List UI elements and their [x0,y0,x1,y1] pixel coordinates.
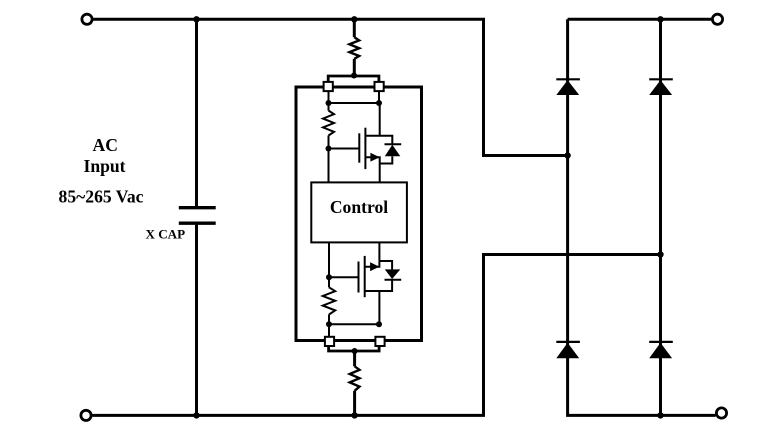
svg-text:Control: Control [330,197,388,217]
svg-text:Input: Input [83,156,125,176]
svg-text:X CAP: X CAP [145,226,185,241]
svg-text:AC: AC [92,135,117,155]
svg-text:85~265 Vac: 85~265 Vac [59,187,144,207]
